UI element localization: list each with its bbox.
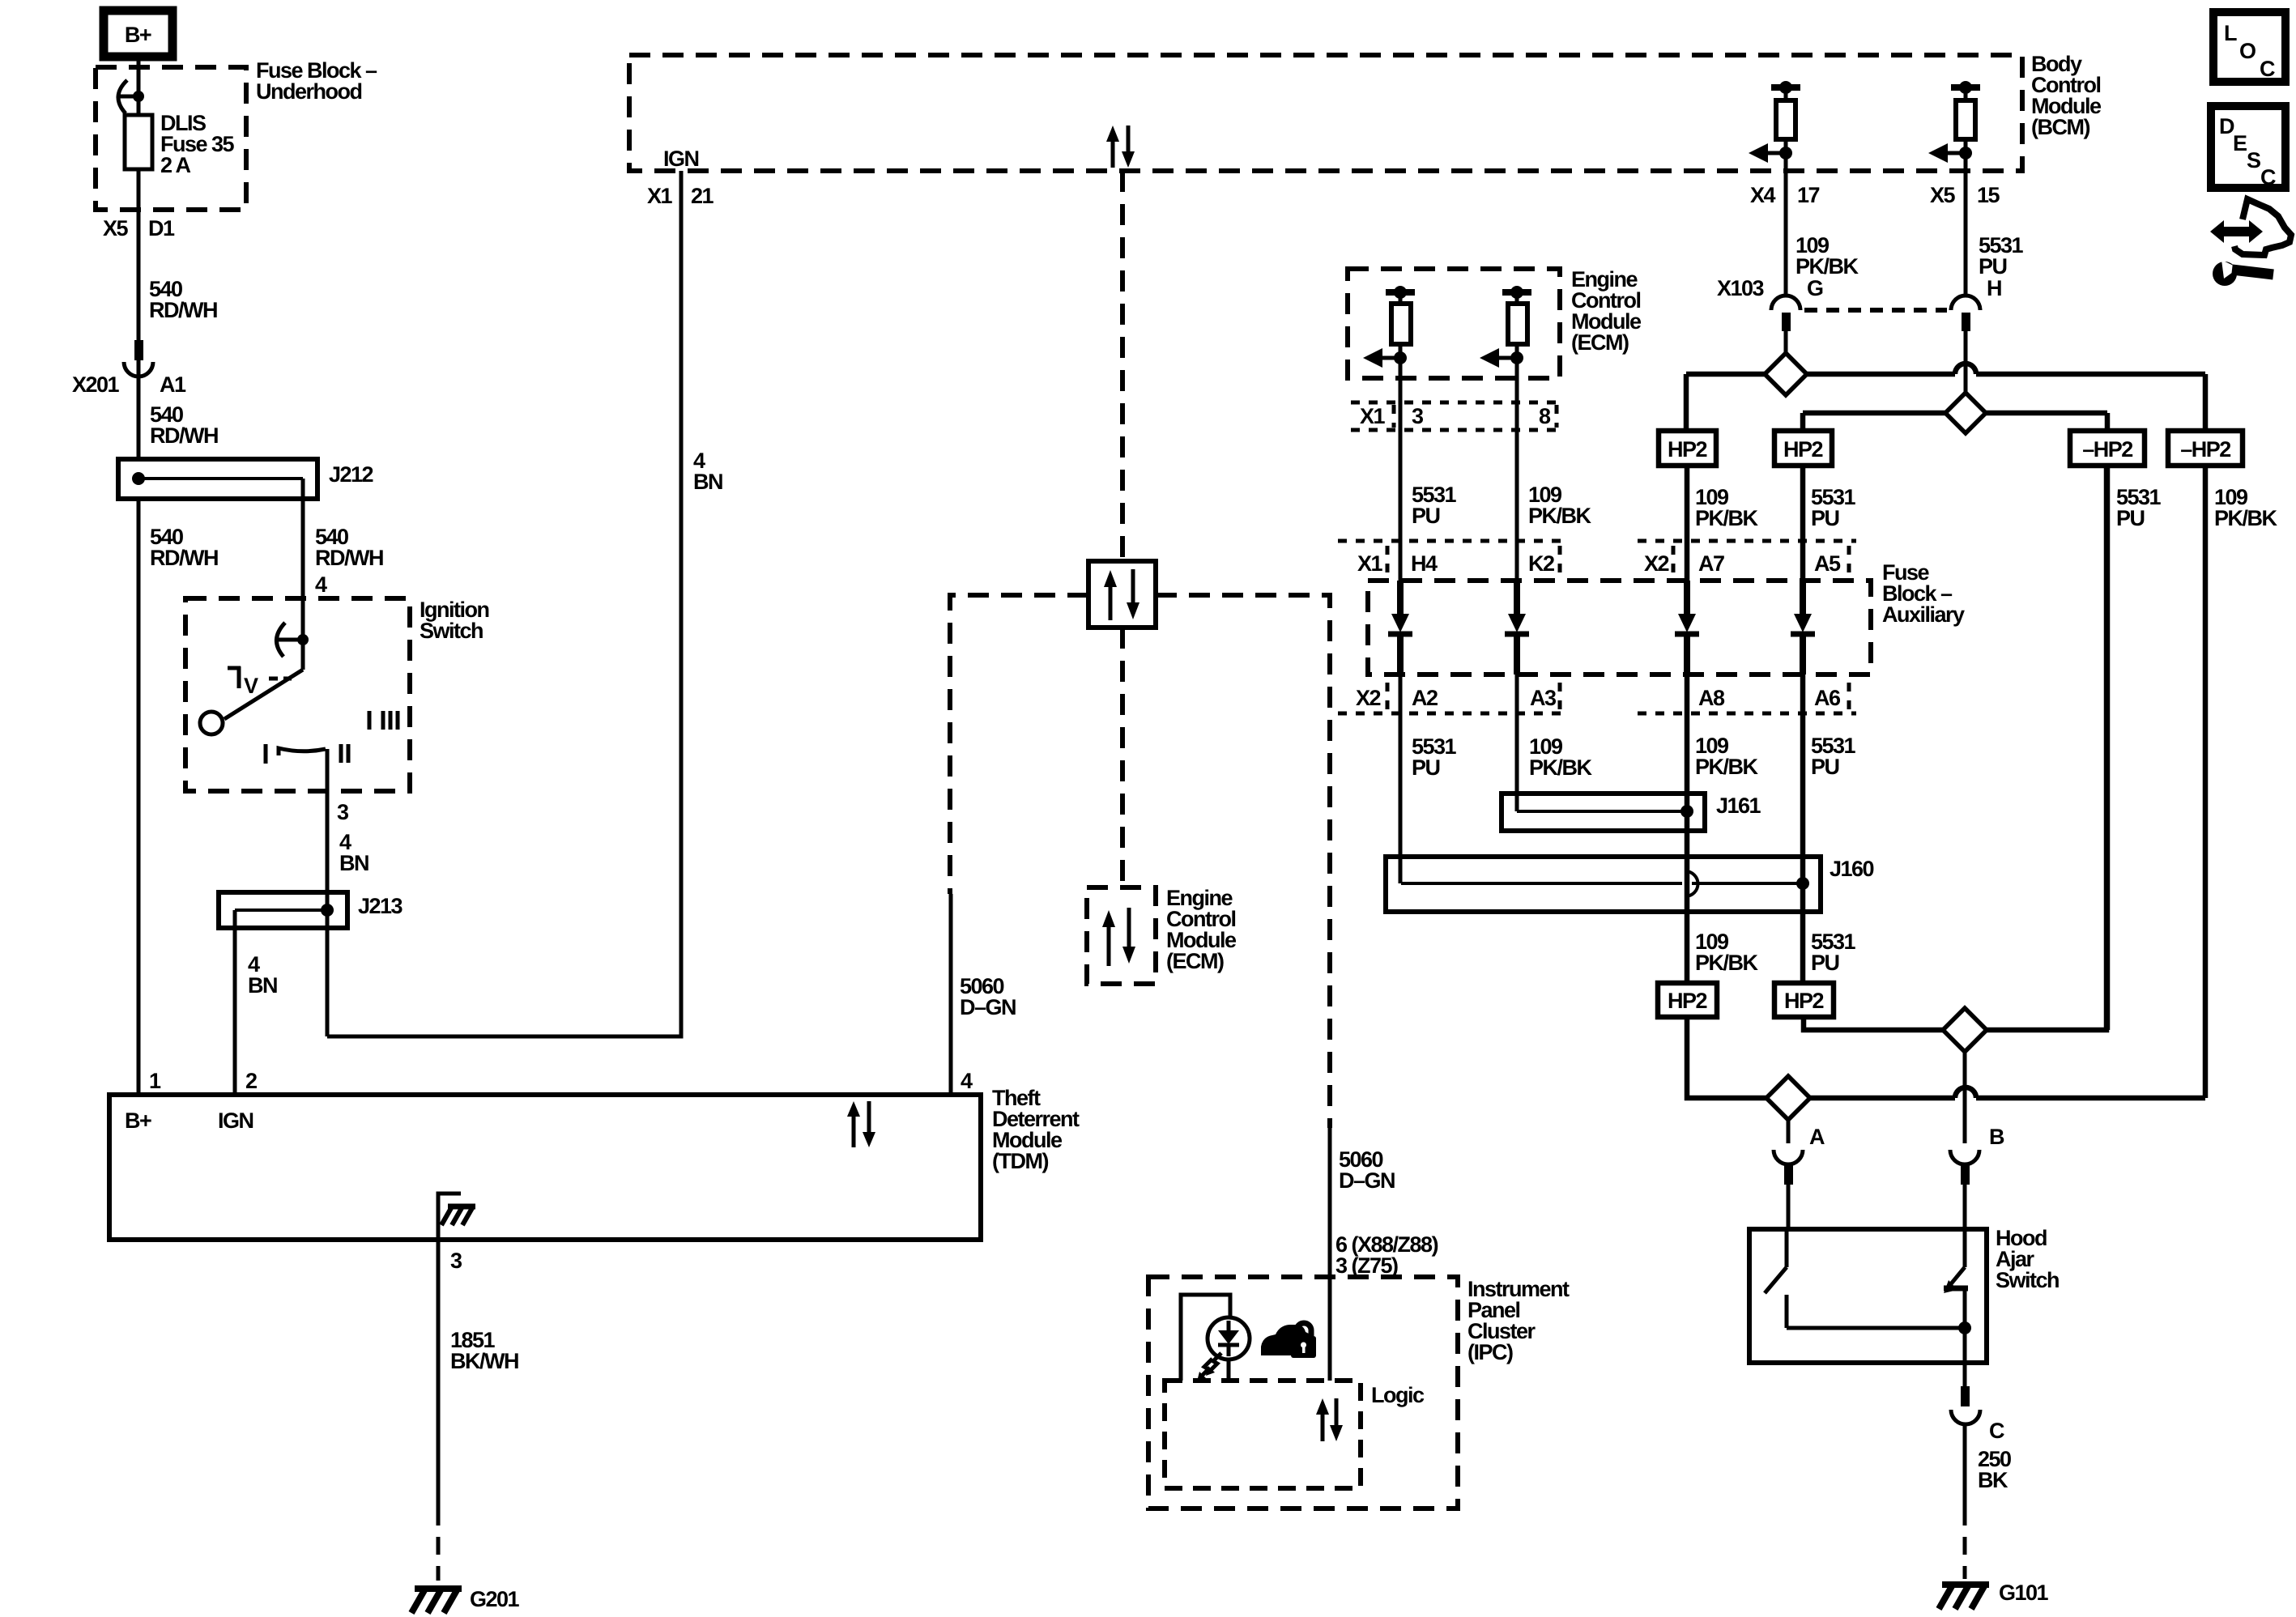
wires HP2 to fuse block (1685, 466, 1690, 581)
svg-text:X5: X5 (1930, 183, 1956, 207)
svg-text:8: 8 (1539, 404, 1551, 428)
diamond A (1766, 1076, 1810, 1120)
svg-text:PK/BK: PK/BK (1529, 755, 1593, 780)
wire J212 to ignition switch (301, 479, 305, 640)
svg-text:B+: B+ (125, 1108, 151, 1133)
svg-text:J161: J161 (1716, 794, 1761, 818)
TDM pin4 wire 5060 D-GN (951, 894, 1016, 1095)
connector row A8 A6 (1638, 683, 1856, 713)
svg-text:G: G (1807, 276, 1823, 300)
svg-text:4: 4 (961, 1069, 973, 1093)
svg-text:S: S (2247, 148, 2260, 172)
svg-text:3: 3 (1412, 404, 1424, 428)
svg-text:A7: A7 (1698, 551, 1724, 576)
svg-text:D1: D1 (148, 216, 175, 240)
svg-text:(BCM): (BCM) (2031, 115, 2089, 139)
svg-text:2: 2 (245, 1069, 257, 1093)
svg-text:PK/BK: PK/BK (1695, 755, 1759, 779)
battery feed B+ box (104, 11, 173, 57)
svg-text:(ECM): (ECM) (1166, 949, 1224, 973)
svg-text:L: L (2224, 21, 2237, 45)
BCM internal resistor G (1749, 81, 1800, 171)
svg-text:G201: G201 (470, 1587, 520, 1611)
svg-text:A3: A3 (1530, 686, 1557, 710)
label 4 BN on IGN wire (693, 449, 722, 494)
wire label 4 BN (339, 830, 368, 875)
svg-text:X1: X1 (1360, 404, 1386, 428)
hood ajar switch box (1749, 1229, 1987, 1363)
indicator LED wiring (1181, 1295, 1230, 1381)
wire B+ to fuse (137, 57, 141, 115)
connector row X2 A7 A5 (1638, 541, 1856, 576)
wire label 540 RD/WH (149, 277, 217, 322)
splice pack J161 (1502, 794, 1761, 831)
svg-text:X2: X2 (1644, 551, 1669, 576)
svg-text:C: C (2260, 57, 2275, 81)
dashed serial data line from BCM (1120, 171, 1125, 561)
svg-text:A2: A2 (1412, 686, 1438, 710)
wires -HP2 down (2105, 466, 2111, 1030)
diamond H (1945, 393, 1986, 433)
svg-text:G101: G101 (1999, 1581, 2049, 1605)
fuse block underhood box (96, 67, 246, 210)
-HP2 fuse box 2 (2168, 431, 2243, 466)
wire 250 BK to G101 (1965, 1423, 2011, 1579)
splice pack J160 (1386, 857, 1874, 912)
svg-text:A6: A6 (1814, 686, 1841, 710)
svg-text:BN: BN (248, 973, 277, 998)
svg-text:BK/WH: BK/WH (450, 1349, 518, 1373)
svg-text:IGN: IGN (218, 1108, 253, 1133)
labels below J160 (1695, 930, 1856, 975)
svg-text:C: C (1989, 1419, 2004, 1443)
HP2 fuse box 2 (1774, 431, 1832, 466)
svg-text:RD/WH: RD/WH (149, 298, 217, 322)
dashed data bus rectangle (950, 595, 1088, 894)
svg-text:PU: PU (1811, 951, 1839, 975)
svg-text:3: 3 (450, 1249, 462, 1273)
svg-text:PK/BK: PK/BK (2214, 506, 2278, 530)
X103 dashed connector line (1804, 308, 1947, 313)
svg-text:3 (Z75): 3 (Z75) (1335, 1253, 1398, 1278)
svg-text:HP2: HP2 (1668, 989, 1707, 1013)
svg-text:A5: A5 (1814, 551, 1841, 576)
svg-text:PK/BK: PK/BK (1695, 506, 1759, 530)
svg-text:(ECM): (ECM) (1571, 330, 1629, 355)
svg-text:X2: X2 (1356, 686, 1381, 710)
svg-text:1: 1 (149, 1069, 161, 1093)
wire IGN from BCM down-left-up to J213 (327, 171, 681, 1036)
label Body Control Module BCM (2031, 52, 2102, 139)
labels 5531 PU / 109 PK/BK (1412, 483, 1592, 528)
switch A inside (1765, 1229, 1787, 1328)
svg-text:C: C (2260, 165, 2276, 189)
svg-text:A1: A1 (160, 372, 186, 397)
svg-text:X5: X5 (103, 216, 129, 240)
wire TDM to G201 (437, 1240, 441, 1508)
svg-text:X201: X201 (72, 372, 120, 397)
logic dashed box (1165, 1381, 1361, 1488)
wire fuse to J212 (137, 169, 141, 459)
position V mark (228, 666, 292, 698)
LOC reference box (2213, 12, 2285, 82)
car with lock icon (1261, 1323, 1316, 1358)
theft deterrent module TDM box (109, 1095, 981, 1240)
BCM pin labels X4 17 X5 15 (1750, 183, 2000, 207)
svg-text:D–GN: D–GN (960, 995, 1016, 1019)
wires below fuse block (1399, 674, 1403, 883)
svg-text:–HP2: –HP2 (2082, 437, 2132, 462)
pin labels X5 D1 (103, 216, 175, 240)
wire H to diamond (1964, 330, 1968, 393)
svg-text:A8: A8 (1698, 686, 1725, 710)
connector X201 A1 (72, 340, 186, 397)
svg-text:RD/WH: RD/WH (150, 423, 218, 448)
svg-text:Logic: Logic (1371, 1383, 1425, 1407)
BCM internal resistor H (1928, 81, 1980, 171)
serial data arrows at BCM (1106, 126, 1135, 168)
svg-text:V: V (244, 674, 258, 698)
svg-text:RD/WH: RD/WH (315, 546, 383, 570)
position I mark and wiper arc (266, 744, 326, 764)
svg-text:PK/BK: PK/BK (1795, 254, 1859, 279)
svg-text:B+: B+ (125, 23, 151, 47)
connector X103 H (1951, 276, 2001, 331)
rail to hood switch B (1804, 466, 2106, 1030)
label X1 21 at BCM (647, 184, 714, 208)
rail to hood switch A (1687, 1017, 2205, 1098)
fuse element H4-A2 (1388, 581, 1412, 674)
position II mark (341, 744, 348, 763)
wire 5060 D-GN to IPC (1328, 1128, 1332, 1381)
-HP2 fuse box 1 (2070, 431, 2145, 466)
svg-text:15: 15 (1977, 183, 2000, 207)
svg-text:PU: PU (1811, 506, 1839, 530)
fuse element A5-A6 (1791, 581, 1815, 674)
position III mark (369, 711, 398, 730)
diamond G (1765, 353, 1807, 395)
svg-text:Underhood: Underhood (256, 79, 361, 104)
svg-text:BK: BK (1978, 1468, 2008, 1492)
svg-text:2 A: 2 A (160, 153, 191, 177)
svg-text:J213: J213 (358, 894, 403, 918)
svg-text:E: E (2233, 131, 2247, 155)
G splice rail (1686, 364, 2205, 431)
svg-text:21: 21 (691, 184, 714, 208)
svg-text:X4: X4 (1750, 183, 1776, 207)
svg-text:PU: PU (1979, 254, 2007, 279)
svg-text:PU: PU (1412, 755, 1440, 780)
ground G101 (1939, 1581, 2049, 1609)
wire label 540 RD/WH (150, 402, 218, 448)
ECM internal resistor 1 (1363, 286, 1415, 368)
svg-text:A: A (1809, 1125, 1825, 1149)
svg-text:HP2: HP2 (1668, 437, 1707, 462)
svg-text:Switch: Switch (1996, 1268, 2059, 1292)
svg-text:D–GN: D–GN (1339, 1168, 1395, 1193)
svg-text:PU: PU (1412, 504, 1440, 528)
engine control module ECM dashed box mid (1087, 887, 1156, 984)
labels 540 RD/WH both (150, 525, 383, 570)
HP2 fuse box 3 (1658, 983, 1717, 1017)
fuse element K2-A3 (1505, 581, 1529, 674)
connector row X2 A2 A3 (1338, 683, 1570, 713)
switch blade and pivot (200, 640, 303, 734)
LED symbol (1197, 1317, 1250, 1381)
wire J213 to TDM pin2 (233, 910, 237, 1095)
svg-text:PU: PU (2116, 506, 2145, 530)
connector C (1951, 1386, 2004, 1443)
svg-text:PK/BK: PK/BK (1695, 951, 1759, 975)
ECM pigtail wires (1399, 357, 1403, 581)
svg-text:X103: X103 (1717, 276, 1765, 300)
svg-text:B: B (1989, 1125, 2004, 1149)
DESC reference box (2211, 106, 2285, 189)
fuse DLIS Fuse 35 2A (125, 111, 235, 177)
splice pack J213 (219, 892, 403, 928)
svg-text:(TDM): (TDM) (992, 1149, 1048, 1173)
svg-text:Switch: Switch (420, 619, 483, 643)
TDM up down arrows (847, 1101, 875, 1147)
svg-text:BN: BN (693, 470, 722, 494)
svg-text:3: 3 (337, 800, 349, 824)
svg-text:BN: BN (339, 851, 368, 875)
svg-text:17: 17 (1797, 183, 1820, 207)
svg-text:H4: H4 (1411, 551, 1438, 576)
H splice rail (1803, 413, 2107, 431)
svg-text:IGN: IGN (663, 147, 699, 171)
crimp splice symbol (118, 80, 144, 113)
svg-text:(IPC): (IPC) (1467, 1340, 1513, 1364)
svg-text:J160: J160 (1830, 857, 1874, 881)
ground G201 (411, 1587, 520, 1613)
fuse block auxiliary dashed box (1368, 581, 1871, 674)
HP2 fuse box 1 (1659, 431, 1716, 466)
svg-text:PK/BK: PK/BK (1528, 504, 1592, 528)
svg-text:X1: X1 (647, 184, 673, 208)
instrument panel cluster IPC dashed box (1148, 1277, 1458, 1508)
wire G to diamond (1784, 330, 1788, 353)
svg-text:Auxiliary: Auxiliary (1882, 602, 1965, 627)
svg-text:H: H (1987, 276, 2001, 300)
body control module BCM dashed box (629, 55, 2022, 171)
wire J212 to TDM pin1 (137, 499, 141, 1095)
svg-text:PU: PU (1811, 755, 1839, 779)
connector A (1774, 1120, 1825, 1229)
crimp inside ignition switch (276, 623, 309, 657)
svg-text:X1: X1 (1357, 551, 1383, 576)
wire ignition pin3 down to J213 (326, 749, 330, 1036)
vehicle repair icon (2210, 199, 2291, 286)
svg-text:J212: J212 (329, 462, 373, 487)
TDM internal ground (438, 1194, 475, 1240)
connector row X1 H4 K2 (1338, 541, 1570, 576)
splice pack J212 (118, 459, 373, 499)
switch common rail (1787, 1321, 1971, 1386)
ignition switch box (185, 598, 410, 791)
diamond B (1943, 1008, 1987, 1052)
svg-text:HP2: HP2 (1783, 437, 1823, 462)
engine control module ECM dashed box top (1348, 269, 1560, 378)
connector X103 G (1717, 276, 1823, 331)
ECM pin row X1 3 8 (1351, 402, 1559, 430)
fuse element A7-A8 (1675, 581, 1699, 674)
svg-text:HP2: HP2 (1784, 989, 1824, 1013)
wires BCM to X103 (1784, 171, 1788, 296)
TDM pin labels 1 2 4 (149, 1069, 973, 1093)
logic arrows (1316, 1398, 1343, 1441)
dashed line to mid ECM (1120, 628, 1125, 887)
svg-text:O: O (2239, 39, 2256, 63)
ECM internal resistor 2 (1480, 286, 1531, 368)
label Fuse Block Underhood (256, 58, 377, 104)
switch B inside (1944, 1229, 1968, 1328)
svg-text:K2: K2 (1528, 551, 1554, 576)
TDM label text (992, 1086, 1080, 1173)
HP2 fuse box 4 (1774, 983, 1834, 1017)
serial data arrow box (1088, 561, 1156, 628)
svg-text:4: 4 (315, 572, 327, 597)
connector B (1950, 1052, 2004, 1229)
wire label 4 BN (248, 952, 277, 998)
svg-text:RD/WH: RD/WH (150, 546, 218, 570)
svg-text:–HP2: –HP2 (2180, 437, 2230, 462)
